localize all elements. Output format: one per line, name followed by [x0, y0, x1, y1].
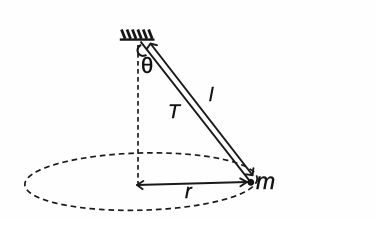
dashed vertical axis — [137, 45, 139, 184]
angle arc for theta — [138, 45, 147, 56]
length dimension arrow l (double-headed) — [147, 44, 254, 176]
label theta — [141, 53, 153, 79]
radius arrow r (double-headed) — [137, 178, 247, 189]
label l — [209, 85, 213, 107]
circular path (dashed ellipse) — [24, 150, 258, 213]
string from pivot to mass — [141, 42, 251, 183]
ceiling baseline — [120, 38, 155, 40]
mass dot — [247, 179, 254, 186]
ceiling support hatching — [122, 30, 153, 39]
label m — [256, 168, 275, 195]
label r — [185, 181, 192, 204]
label T — [168, 101, 180, 124]
